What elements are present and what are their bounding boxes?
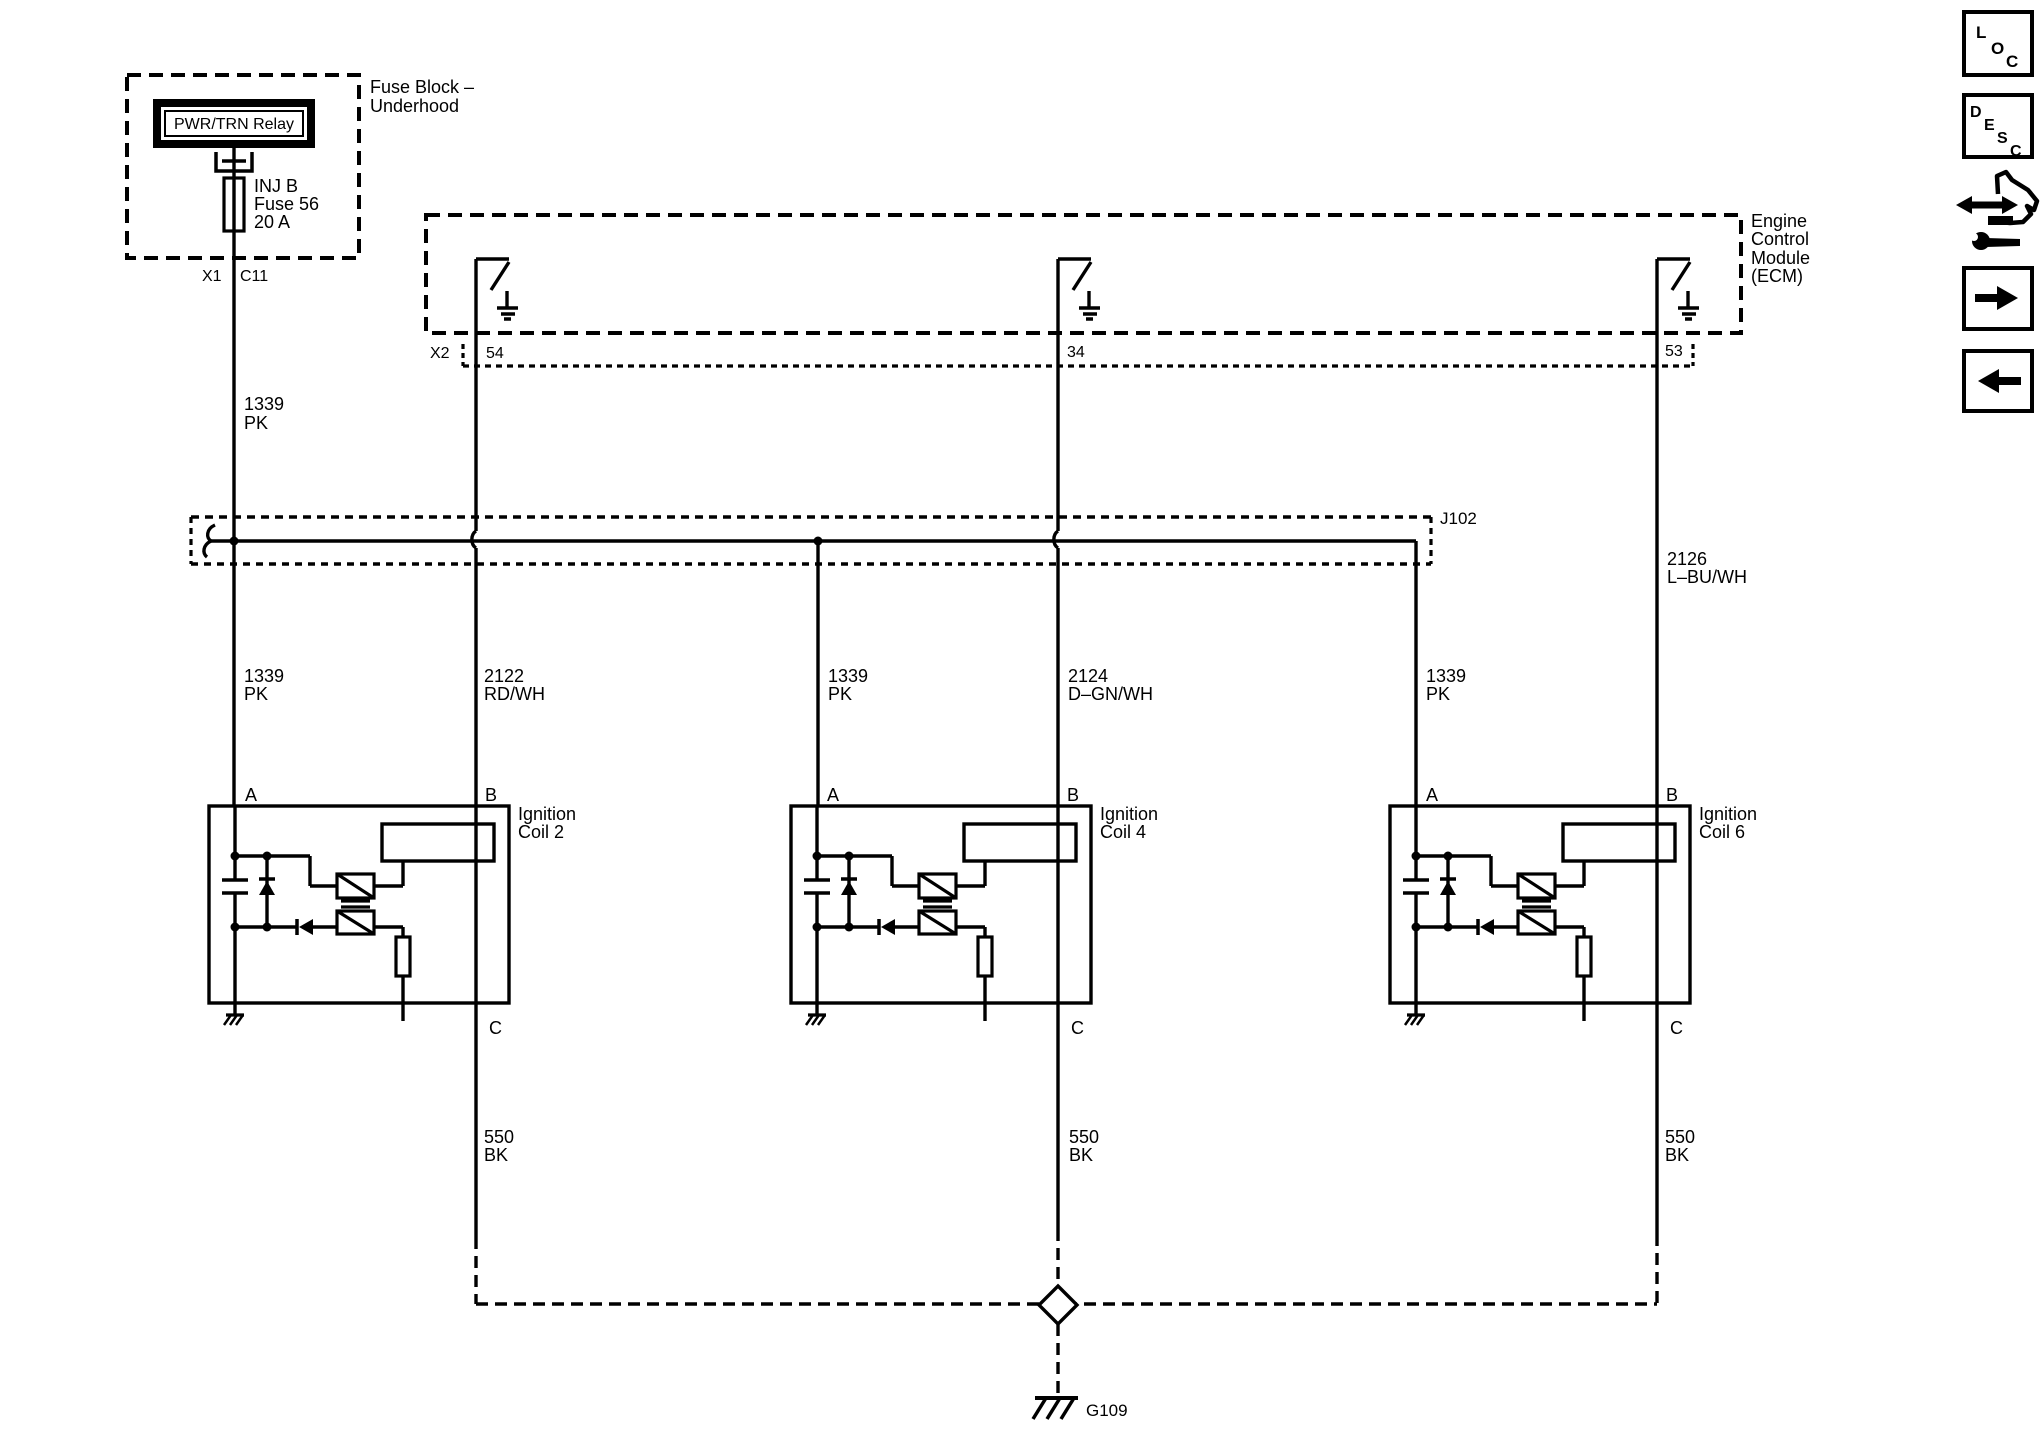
- wire: J102 to coil2 A (1339 PK): [232, 541, 235, 806]
- ECM low-side driver, pin 53 (switch to ground): [1657, 259, 1699, 319]
- relay terminal bracket: [216, 152, 252, 171]
- primary winding: [337, 874, 374, 898]
- wire label 550 BK (coil4): [1069, 1127, 1099, 1165]
- icon: next arrow button: [1964, 268, 2032, 329]
- label: Ignition Coil 6: [1699, 804, 1757, 842]
- svg-text:1339: 1339: [244, 394, 284, 414]
- diode (horizontal): [879, 919, 895, 935]
- wire label 550 BK (coil6): [1665, 1127, 1695, 1165]
- svg-text:PK: PK: [244, 413, 268, 433]
- svg-text:Coil 4: Coil 4: [1100, 822, 1146, 842]
- wire label 2122 RD/WH: [484, 666, 545, 704]
- svg-text:PK: PK: [244, 684, 268, 704]
- driver module block: [964, 824, 1076, 861]
- svg-text:C: C: [489, 1018, 502, 1038]
- junction dots upper row: [1412, 852, 1453, 861]
- wire label 550 BK (coil2): [484, 1127, 514, 1165]
- pin label C: [1670, 1018, 1683, 1038]
- label: Ignition Coil 4: [1100, 804, 1158, 842]
- svg-text:Ignition: Ignition: [518, 804, 576, 824]
- junction dots lower row: [813, 923, 854, 932]
- svg-text:RD/WH: RD/WH: [484, 684, 545, 704]
- primary winding: [919, 874, 956, 898]
- relay: PWR/TRN Relay: [157, 103, 311, 144]
- svg-text:1339: 1339: [1426, 666, 1466, 686]
- connector X2 (dashed): [463, 344, 1693, 366]
- pin label 54: [486, 345, 504, 362]
- svg-text:L–BU/WH: L–BU/WH: [1667, 567, 1747, 587]
- junction dots upper row: [231, 852, 272, 861]
- driver module block: [1563, 824, 1675, 861]
- label X2: [430, 345, 450, 362]
- spark plug tower stub: [983, 976, 986, 1021]
- chassis ground (coil housing): [224, 1015, 244, 1025]
- svg-text:Coil 2: Coil 2: [518, 822, 564, 842]
- svg-text:J102: J102: [1440, 509, 1477, 528]
- internal wire: node A to primary winding: [1416, 856, 1518, 886]
- ECM low-side driver, pin 54 (switch to ground): [476, 259, 518, 319]
- wire: J102 to coil6 A (1339 PK): [1414, 541, 1417, 806]
- junction dots lower row: [231, 923, 272, 932]
- svg-text:Fuse 56: Fuse 56: [254, 194, 319, 214]
- svg-text:Ignition: Ignition: [1100, 804, 1158, 824]
- svg-text:A: A: [245, 785, 257, 805]
- spark plug tower stub: [401, 976, 404, 1021]
- wire: coil2 C (550 BK): [474, 1003, 477, 1304]
- pin label A: [1426, 785, 1438, 805]
- transformer core: [341, 901, 370, 907]
- spark plug tower stub: [1582, 976, 1585, 1021]
- lower internal row: [817, 925, 919, 928]
- wire label 2126 L-BU/WH: [1667, 549, 1747, 587]
- wire: secondary to resistor: [956, 927, 985, 937]
- svg-text:B: B: [1067, 785, 1079, 805]
- svg-text:X2: X2: [430, 345, 450, 362]
- ground G109: [1033, 1398, 1078, 1419]
- zener diode (vertical): [1440, 856, 1456, 927]
- svg-text:2124: 2124: [1068, 666, 1108, 686]
- svg-text:PK: PK: [1426, 684, 1450, 704]
- wire: coil4 C (550 BK): [1056, 1003, 1059, 1286]
- splice pack J102 (dashed box): [191, 517, 1431, 564]
- svg-text:53: 53: [1665, 343, 1683, 360]
- icon: LOC button: [1964, 12, 2032, 75]
- label: Fuse Block - Underhood: [370, 77, 474, 116]
- resistor (secondary output): [396, 937, 410, 976]
- svg-text:Module: Module: [1751, 248, 1810, 268]
- secondary winding: [337, 911, 374, 934]
- pin label B: [485, 785, 497, 805]
- wire: J102 to coil4 A (1339 PK): [816, 541, 819, 806]
- svg-text:Engine: Engine: [1751, 211, 1807, 231]
- label: INJ B Fuse 56 20 A: [254, 176, 319, 232]
- pin label A: [827, 785, 839, 805]
- wire: splice to G109: [1056, 1324, 1059, 1396]
- svg-text:BK: BK: [484, 1145, 508, 1165]
- svg-text:Control: Control: [1751, 229, 1809, 249]
- svg-text:D–GN/WH: D–GN/WH: [1068, 684, 1153, 704]
- wire pin A internal + capacitor branch: [1414, 806, 1417, 1015]
- fuse block - underhood (dashed box): [127, 75, 359, 258]
- label: Engine Control Module (ECM): [1751, 211, 1810, 286]
- svg-text:2122: 2122: [484, 666, 524, 686]
- ignition coil 6 box: [1390, 806, 1690, 1003]
- svg-text:A: A: [1426, 785, 1438, 805]
- zener diode (vertical): [259, 856, 275, 927]
- label: Ignition Coil 2: [518, 804, 576, 842]
- diode (horizontal): [297, 919, 313, 935]
- svg-text:PK: PK: [828, 684, 852, 704]
- svg-text:(ECM): (ECM): [1751, 266, 1803, 286]
- resistor (secondary output): [1577, 937, 1591, 976]
- svg-text:C11: C11: [240, 268, 268, 285]
- wire pin B through module: [1655, 806, 1658, 1003]
- junction at fuse feed: [230, 537, 239, 546]
- svg-text:Coil 6: Coil 6: [1699, 822, 1745, 842]
- junction dots lower row: [1412, 923, 1453, 932]
- svg-text:S: S: [1997, 130, 2008, 147]
- svg-text:550: 550: [1069, 1127, 1099, 1147]
- wire: primary to driver module: [956, 861, 985, 886]
- svg-text:C: C: [2010, 143, 2022, 160]
- svg-text:A: A: [827, 785, 839, 805]
- wire label 1339 PK (coil6): [1426, 666, 1466, 704]
- junction dots upper row: [813, 852, 854, 861]
- chassis ground (coil housing): [806, 1015, 826, 1025]
- secondary winding: [919, 911, 956, 934]
- pin label B: [1067, 785, 1079, 805]
- svg-text:C: C: [1670, 1018, 1683, 1038]
- svg-text:G109: G109: [1086, 1401, 1128, 1420]
- wire: pin 54 to coil2 B (2122 RD/WH), hops over J102 bus: [472, 259, 476, 806]
- wire: fuse to J102 splice (1339 PK): [232, 231, 235, 541]
- fuse F56: INJ B Fuse 56 20 A: [224, 178, 244, 231]
- svg-text:Underhood: Underhood: [370, 96, 459, 116]
- svg-text:BK: BK: [1069, 1145, 1093, 1165]
- svg-text:BK: BK: [1665, 1145, 1689, 1165]
- wire: pin 53 to coil6 B (2126 L-BU/WH): [1655, 259, 1658, 806]
- svg-text:PWR/TRN Relay: PWR/TRN Relay: [174, 116, 294, 133]
- wire pin A internal + capacitor branch: [233, 806, 236, 1015]
- capacitor: [222, 880, 248, 893]
- ground bus 550 BK (dashed): [476, 1302, 1657, 1305]
- wire label 2124 D-GN/WH: [1068, 666, 1153, 704]
- bus wire 1339 PK inside J102: [204, 525, 1416, 557]
- junction at coil4 feed: [814, 537, 823, 546]
- svg-text:B: B: [1666, 785, 1678, 805]
- svg-text:E: E: [1984, 117, 1995, 134]
- wire: coil6 C (550 BK): [1655, 1003, 1658, 1304]
- pin label C: [489, 1018, 502, 1038]
- svg-text:1339: 1339: [828, 666, 868, 686]
- svg-text:550: 550: [484, 1127, 514, 1147]
- svg-text:Fuse Block –: Fuse Block –: [370, 77, 474, 97]
- resistor (secondary output): [978, 937, 992, 976]
- lower internal row: [1416, 925, 1518, 928]
- svg-text:34: 34: [1067, 344, 1085, 361]
- diode (horizontal): [1478, 919, 1494, 935]
- label J102: [1440, 509, 1477, 528]
- svg-text:C: C: [1071, 1018, 1084, 1038]
- internal wire: node A to primary winding: [235, 856, 337, 886]
- icon: back arrow button: [1964, 351, 2032, 411]
- pin label B: [1666, 785, 1678, 805]
- svg-text:X1: X1: [202, 268, 222, 285]
- icon: DESC button: [1964, 95, 2032, 160]
- splice (diamond): [1039, 1286, 1077, 1324]
- wire: relay output: [232, 148, 235, 178]
- driver module block: [382, 824, 494, 861]
- wire pin B through module: [474, 806, 477, 1003]
- transformer core: [1522, 901, 1551, 907]
- zener diode (vertical): [841, 856, 857, 927]
- wire label 1339 PK (coil4): [828, 666, 868, 704]
- ECM low-side driver, pin 34 (switch to ground): [1058, 259, 1100, 319]
- capacitor: [804, 880, 830, 893]
- wire label 1339 PK: [244, 394, 284, 433]
- ECM box (Engine Control Module, dashed): [426, 215, 1741, 333]
- wire: secondary to resistor: [1555, 927, 1584, 937]
- svg-text:550: 550: [1665, 1127, 1695, 1147]
- internal wire: node A to primary winding: [817, 856, 919, 886]
- wire pin A internal + capacitor branch: [815, 806, 818, 1015]
- wire: primary to driver module: [374, 861, 403, 886]
- ignition coil 2 box: [209, 806, 509, 1003]
- capacitor: [1403, 880, 1429, 893]
- svg-text:54: 54: [486, 345, 504, 362]
- ignition coil 4 box: [791, 806, 1091, 1003]
- svg-text:20 A: 20 A: [254, 212, 290, 232]
- svg-text:L: L: [1976, 23, 1986, 42]
- wire pin B through module: [1056, 806, 1059, 1003]
- svg-text:O: O: [1991, 39, 2004, 58]
- chassis ground (coil housing): [1405, 1015, 1425, 1025]
- pin label A: [245, 785, 257, 805]
- icon: wrench / replace (double arrow + wrench): [1956, 172, 2037, 250]
- wire: pin 34 to coil4 B (2124 D-GN/WH), hops over J102 bus: [1054, 259, 1058, 806]
- label G109: [1086, 1401, 1128, 1420]
- svg-text:Ignition: Ignition: [1699, 804, 1757, 824]
- pin label 53: [1665, 343, 1683, 360]
- pin label 34: [1067, 344, 1085, 361]
- wire label 1339 PK (coil2): [244, 666, 284, 704]
- wire: secondary to resistor: [374, 927, 403, 937]
- lower internal row: [235, 925, 337, 928]
- connector label X1 C11: [202, 268, 268, 285]
- wire: primary to driver module: [1555, 861, 1584, 886]
- svg-text:D: D: [1970, 104, 1982, 121]
- svg-text:B: B: [485, 785, 497, 805]
- svg-text:2126: 2126: [1667, 549, 1707, 569]
- svg-text:INJ B: INJ B: [254, 176, 298, 196]
- transformer core: [923, 901, 952, 907]
- secondary winding: [1518, 911, 1555, 934]
- svg-text:C: C: [2006, 52, 2018, 71]
- svg-text:1339: 1339: [244, 666, 284, 686]
- primary winding: [1518, 874, 1555, 898]
- pin label C: [1071, 1018, 1084, 1038]
